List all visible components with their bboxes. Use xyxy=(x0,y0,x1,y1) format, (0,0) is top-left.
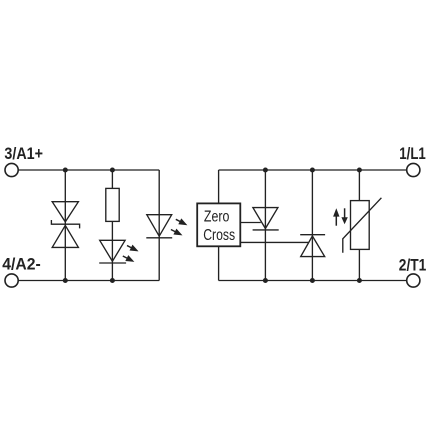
wire gate SCR1 xyxy=(240,222,260,224)
varistor surge arrow down xyxy=(341,208,347,224)
LED D1 xyxy=(100,240,125,261)
wire LED2 branch xyxy=(158,170,160,281)
resistor R xyxy=(106,188,119,221)
LED D1 emission arrows xyxy=(126,243,141,255)
wire gate SCR2 xyxy=(240,241,308,243)
thyristor SCR1 xyxy=(253,208,278,229)
wire right top rail xyxy=(219,169,407,171)
svg-text:3/A1+: 3/A1+ xyxy=(4,144,43,163)
wire zero-cross box top xyxy=(218,170,220,203)
varistor surge arrow up xyxy=(333,208,339,225)
LED D2 emission arrows xyxy=(174,216,189,228)
wire right bottom rail xyxy=(219,280,407,282)
terminal 3/A1+ xyxy=(5,163,18,176)
TVS diode suppressor xyxy=(52,202,78,222)
wire zero-cross box bottom xyxy=(218,246,220,280)
wire left bottom rail xyxy=(18,280,159,282)
LED D2 xyxy=(147,215,172,237)
varistor RV xyxy=(351,201,370,250)
junction dots right xyxy=(263,168,268,173)
svg-text:Cross: Cross xyxy=(203,227,235,244)
wire SCR1 branch xyxy=(264,170,266,281)
wire TVS branch xyxy=(64,170,66,281)
wire varistor branch xyxy=(358,170,360,281)
terminal 2/T1 xyxy=(407,274,420,287)
svg-text:Zero: Zero xyxy=(204,209,230,226)
svg-text:2/T1: 2/T1 xyxy=(399,256,427,275)
terminal 1/L1 xyxy=(407,163,420,176)
wire resistor branch xyxy=(111,170,113,281)
junction dots left xyxy=(63,168,68,173)
svg-text:4/A2-: 4/A2- xyxy=(2,254,40,273)
svg-text:1/L1: 1/L1 xyxy=(399,144,426,163)
wire left top rail xyxy=(18,169,159,171)
zero cross box xyxy=(197,203,240,246)
thyristor SCR2 xyxy=(301,236,325,257)
wire SCR2 branch xyxy=(311,170,313,281)
terminal 4/A2- xyxy=(5,274,18,287)
